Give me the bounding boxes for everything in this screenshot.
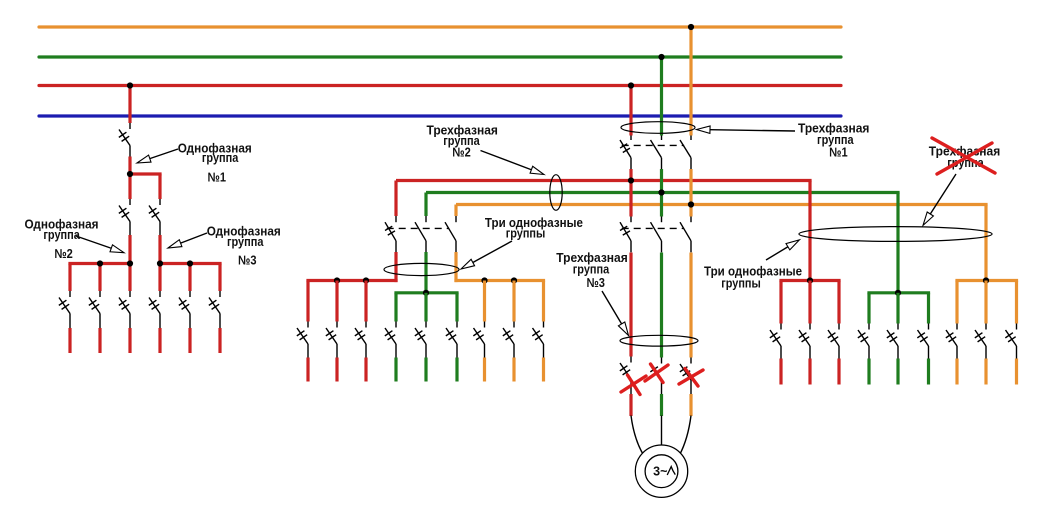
svg-text:3~: 3~: [653, 464, 667, 478]
svg-text:группа: группа: [43, 227, 80, 242]
svg-text:№2: №2: [452, 145, 471, 160]
svg-text:группа: группа: [202, 150, 239, 165]
svg-text:группы: группы: [506, 225, 546, 240]
svg-text:№2: №2: [54, 246, 73, 261]
svg-text:№3: №3: [238, 253, 257, 268]
svg-text:группа: группа: [227, 234, 264, 249]
svg-text:№1: №1: [829, 145, 848, 160]
svg-text:№1: №1: [208, 169, 227, 184]
svg-text:группы: группы: [721, 276, 761, 291]
svg-text:№3: №3: [586, 275, 605, 290]
